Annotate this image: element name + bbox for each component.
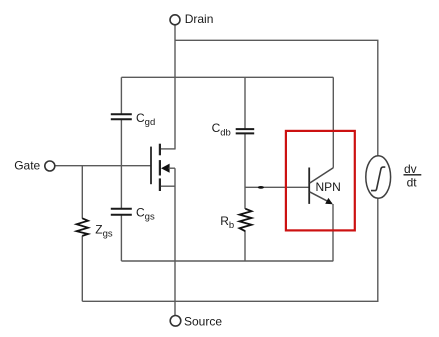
svg-text:Cdb: Cdb [212,121,231,138]
terminal Source [170,315,222,329]
drain lead [161,148,175,150]
body arrow [161,164,170,173]
red highlight box around NPN [286,131,355,231]
wire: base lead to NPN [245,186,309,188]
collector diagonal [310,168,334,183]
emitter diagonal [310,192,332,204]
transistor Q1 (parasitic NPN) [309,168,341,205]
channel segment top [159,144,161,156]
wire: NPN emitter vertical [332,204,334,261]
wire: Zgs branch lower [81,236,83,302]
node: junction dot on base wire [258,186,264,189]
svg-text:Cgd: Cgd [136,111,155,128]
resistor Rb [220,209,251,232]
capacitor Cgd [111,111,155,128]
wire: inner-left top (Cgd upper lead) [120,77,122,113]
source lead [161,185,175,187]
wire: drain vertical from Drain terminal to MOSFET drain [174,25,176,150]
wire: Rb bottom to inner bottom rail [244,231,246,261]
wire: gate lead [55,165,151,167]
wire: NPN collector vertical [332,77,334,168]
source dv/dt (controlled source symbol) [366,156,391,199]
svg-text:dt: dt [407,176,418,190]
terminal Gate [14,158,55,172]
svg-text:Source: Source [184,315,222,329]
wire: dv/dt source bottom, right edge down, bottom rail [82,199,378,302]
emitter arrowhead [325,198,333,204]
svg-text:NPN: NPN [316,180,341,194]
wire: Zgs branch upper [81,166,83,219]
wire: Cdb branch upper [244,77,246,128]
channel segment middle [159,160,161,175]
svg-text:Rb: Rb [220,214,234,231]
svg-text:Cgs: Cgs [136,205,155,222]
wire: Cgs bottom to inner bottom rail [120,215,122,261]
capacitor Cdb [212,121,255,138]
wire: gate wire to Cgs top [120,166,122,208]
label dv/dt [404,162,422,190]
svg-text:Gate: Gate [14,158,40,172]
channel segment bottom [159,178,161,191]
wire: MOSFET source vertical down to Source terminal [174,168,176,315]
wire: inner top rail [121,76,333,78]
wire: Cdb to Rb node [244,134,246,209]
terminal Drain [170,12,213,26]
transistor M1 (MOSFET) [151,144,175,191]
base bar [308,168,310,204]
body line [169,167,176,169]
capacitor Cgs [111,205,155,222]
svg-text:Drain: Drain [185,12,214,26]
gate bar [150,147,152,185]
wire: inner bottom rail [121,260,333,262]
wire: Cgd lower lead to gate wire [120,120,122,166]
svg-text:dv: dv [404,162,417,176]
wire: top rail right to dv/dt source [175,40,378,156]
svg-text:Zgs: Zgs [95,223,113,240]
resistor Zgs [77,218,113,239]
